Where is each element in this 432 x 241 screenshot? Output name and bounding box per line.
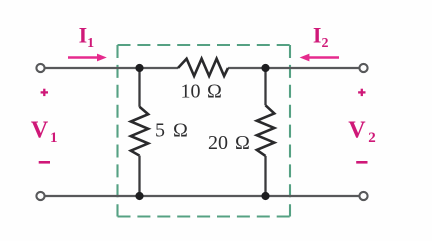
two-port network boundary dashed box <box>118 45 291 217</box>
wire top-left (terminal to node A) <box>45 67 140 69</box>
wire right branch lower <box>264 156 266 196</box>
plus sign right port <box>358 89 365 96</box>
current arrow I1 (points right) <box>68 54 107 62</box>
wire right branch upper <box>264 68 266 105</box>
terminal top-right (open circle) <box>359 64 367 72</box>
terminal bottom-right (open circle) <box>359 192 367 200</box>
plus sign left port <box>41 89 48 96</box>
node A (top-left junction) <box>135 64 143 72</box>
wire left branch lower <box>138 156 140 196</box>
terminal bottom-left (open circle) <box>36 192 44 200</box>
minus sign right port <box>356 161 367 164</box>
node B (top-right junction) <box>261 64 269 72</box>
current arrow I2 (points left) <box>300 54 339 62</box>
resistor 20 ohm (right shunt, vertical) <box>257 105 275 156</box>
svg-text:5 Ω: 5 Ω <box>155 120 188 142</box>
node C (bottom-left junction) <box>135 192 143 200</box>
wire node A to node B through resistor (stubs) <box>140 67 179 69</box>
wire left branch upper <box>138 68 140 107</box>
terminal top-left (open circle) <box>36 64 44 72</box>
resistor 10 ohm (series, horizontal) <box>178 59 228 76</box>
minus sign left port <box>39 161 50 164</box>
resistor 5 ohm (left shunt, vertical) <box>131 107 148 156</box>
wire bottom (terminal to terminal) <box>45 195 359 197</box>
svg-text:20 Ω: 20 Ω <box>208 132 250 154</box>
node D (bottom-right junction) <box>261 192 269 200</box>
wire node B to top-right terminal <box>266 67 360 69</box>
svg-text:10 Ω: 10 Ω <box>181 81 222 103</box>
